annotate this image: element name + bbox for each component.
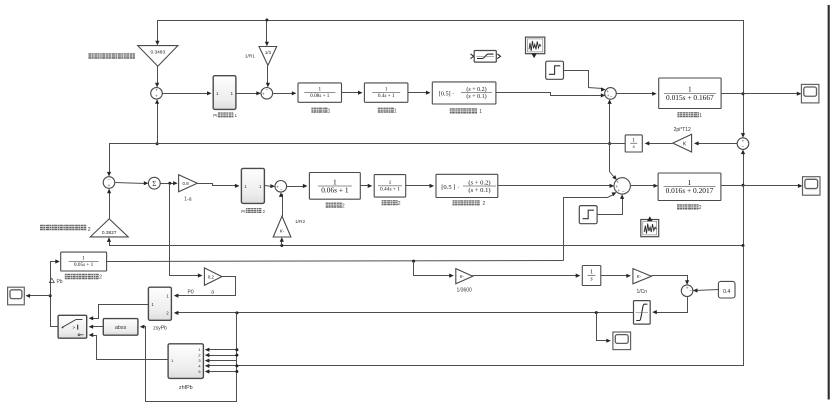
gain 1/R1 — [259, 47, 277, 66]
transfer fcn reheat turbine 1 — [432, 82, 496, 104]
svg-text:2: 2 — [342, 203, 345, 209]
svg-text:a: a — [211, 289, 214, 295]
svg-text:0.3483: 0.3483 — [150, 49, 165, 55]
svg-text:(s + 0.2): (s + 0.2) — [466, 86, 486, 93]
svg-text:−: − — [280, 187, 283, 192]
wire step 1 to sum S3 — [564, 71, 603, 89]
wire governor 2 to prime mover 2 — [361, 185, 370, 187]
transfer fcn generator 1 — [659, 78, 721, 109]
label governor 2 — [326, 203, 331, 208]
scope 2 — [803, 177, 821, 196]
transfer fcn reheat turbine 2 — [436, 174, 498, 197]
svg-text:0.06s + 1: 0.06s + 1 — [321, 186, 349, 195]
svg-text:2: 2 — [398, 201, 401, 207]
svg-text:1: 1 — [319, 87, 322, 93]
svg-text:+: + — [262, 92, 265, 97]
svg-text:−: − — [610, 94, 613, 99]
svg-text:1: 1 — [235, 113, 238, 118]
svg-text:−: − — [622, 189, 625, 194]
wire sum S6 to gain 1-a — [161, 183, 175, 185]
subsystem zsyPb — [148, 287, 171, 320]
wire gain 1/Cn down into sum S9 — [652, 276, 688, 283]
wire sum S1 to PI controller 1 — [163, 93, 209, 95]
step 1 — [546, 61, 564, 79]
svg-text:[0.5] ·: [0.5] · — [439, 91, 454, 98]
sum S1 — [151, 88, 163, 100]
svg-text:1/3: 1/3 — [265, 50, 272, 55]
wire branch down to scope 3 — [597, 313, 609, 341]
svg-text:1/Cn: 1/Cn — [637, 289, 648, 295]
wire reheat turbine 2 to sum S8 — [498, 185, 612, 187]
saturation block 1 (floating) — [471, 54, 474, 59]
svg-text:−: − — [265, 88, 268, 93]
svg-text:1: 1 — [389, 180, 392, 186]
wire ACE2 branch down to gain a — [170, 184, 200, 276]
wire reheat turbine 1 to sum S3 — [496, 93, 603, 96]
wire into zhfPb port 3 — [208, 360, 237, 362]
svg-text:0.08s + 1: 0.08s + 1 — [310, 93, 330, 99]
wire gain 1/R1 output down to sum S2 — [267, 66, 269, 85]
wire tie-line branch down into sum S8 top-left — [610, 144, 614, 177]
gain 1/3600 — [456, 269, 473, 284]
wire abss output to switch input 2 — [92, 326, 104, 328]
wire into zhfPb port 1 — [208, 349, 237, 351]
subsystem PI controller 1 — [213, 76, 236, 110]
gain 1/R2 — [273, 216, 291, 237]
block abss — [103, 319, 138, 336]
svg-text:+: + — [155, 94, 158, 99]
svg-text:0.016s + 0.2017: 0.016s + 0.2017 — [666, 186, 714, 195]
transfer fcn prime mover 2 — [374, 175, 406, 198]
svg-text:abss: abss — [115, 325, 127, 331]
svg-text:−: − — [108, 177, 111, 182]
svg-text:0.8: 0.8 — [183, 181, 190, 186]
svg-text:zsyPb: zsyPb — [153, 326, 167, 332]
svg-text:2: 2 — [699, 205, 702, 211]
sum S5 — [103, 177, 115, 189]
wire step 2 up into sum S8 bottom — [598, 197, 623, 215]
label energy storage transfer fcn 2 — [65, 274, 70, 279]
wire gain 1-a to PI controller 2 — [198, 184, 237, 186]
label generator set 1 — [677, 112, 682, 117]
transfer fcn governor 2 — [309, 173, 360, 200]
wire SOC distribution vertical x=237 — [142, 313, 237, 402]
transfer fcn generator 2 — [658, 173, 721, 201]
gain 0.3483 (frequency bias 1) — [138, 46, 178, 67]
wire tie-line branch up into sum S1 bottom — [157, 102, 159, 144]
svg-text:Σ: Σ — [152, 180, 156, 188]
svg-text:2: 2 — [263, 209, 266, 214]
wire constant 0.4 to sum S9 — [696, 290, 719, 291]
svg-text:1/3600: 1/3600 — [457, 287, 473, 293]
wire integrator 2 to gain 1/Cn — [601, 275, 629, 277]
wire f2 up into sum S4 bottom — [743, 153, 745, 186]
svg-text:+: + — [617, 188, 620, 193]
wire sum S7 to governor 2 — [287, 186, 305, 188]
label delta Pb — [49, 278, 54, 282]
svg-text:1: 1 — [590, 270, 593, 276]
wire gain 0.3827 up into sum S5 — [109, 192, 111, 219]
wire branch down to gain 1/3600 — [414, 262, 452, 276]
svg-text:(s + 0.1): (s + 0.1) — [468, 187, 490, 194]
gain 0.3827 (frequency bias 2) — [90, 219, 128, 237]
svg-text:0.015s + 0.1667: 0.015s + 0.1667 — [666, 93, 714, 102]
gain 1-a (0.8) — [179, 175, 198, 192]
svg-text:zhfPb: zhfPb — [179, 385, 193, 391]
wire zsyPb output to switch input 1 — [92, 305, 149, 319]
svg-text:1: 1 — [328, 108, 331, 114]
wire into zhfPb port 5 — [208, 371, 237, 373]
sum S3 — [605, 88, 617, 100]
svg-text:1/R1: 1/R1 — [245, 53, 255, 59]
transfer fcn governor 1 — [298, 83, 342, 102]
wire f1 down into tie-line sum S4 — [743, 94, 745, 136]
svg-text:1/R2: 1/R2 — [295, 219, 305, 225]
svg-text:+: + — [276, 184, 279, 189]
label reheat turbine 2 — [453, 200, 458, 205]
wire governor 1 to prime mover 1 — [342, 92, 360, 94]
wire sum S2 to governor 1 — [273, 93, 294, 95]
svg-text:[0.5 ] ·: [0.5 ] · — [441, 184, 459, 191]
integrator 2 (1/s) — [582, 266, 601, 286]
svg-text:+: + — [686, 286, 689, 291]
wire sum S5 to sum S6 — [116, 183, 146, 184]
constant 0.4 — [718, 281, 735, 298]
gain 1/Cn — [633, 269, 652, 284]
svg-text:1: 1 — [385, 87, 388, 93]
svg-text:2: 2 — [99, 275, 102, 281]
wire generator 2 to scope 2 — [721, 185, 800, 187]
label governor 1 — [311, 108, 316, 113]
svg-text:0.4s + 1: 0.4s + 1 — [378, 93, 395, 99]
svg-text:0.05s + 1: 0.05s + 1 — [74, 262, 94, 268]
gain 2pi*T12 — [673, 134, 692, 152]
wire prime mover 2 to reheat turbine 2 — [406, 185, 432, 187]
svg-text:>: > — [73, 325, 76, 330]
wire branch to bottom-left scope — [29, 295, 51, 297]
svg-text:+: + — [742, 138, 745, 143]
subsystem PI controller 2 — [241, 168, 264, 203]
svg-text:s: s — [633, 144, 635, 150]
wire battery output to big sum S8 (up from storage line) — [564, 195, 614, 261]
svg-text:+: + — [108, 183, 111, 188]
wire prime mover 1 to reheat turbine 1 — [408, 92, 428, 94]
saturation 2 — [634, 301, 651, 325]
sum S2 — [261, 88, 273, 100]
svg-text:1: 1 — [632, 138, 635, 144]
wire gain 1/3600 to integrator 2 — [473, 275, 578, 277]
wire sum S9 down into saturation 2 — [656, 297, 688, 313]
wire f2 long loop to zhfPb port 4 — [208, 246, 744, 366]
signal generator 1 — [526, 37, 545, 54]
wire zhfPb output to switch input 3 — [92, 336, 169, 360]
svg-text:0.2: 0.2 — [208, 274, 215, 279]
sum S7 — [275, 181, 287, 193]
svg-text:0.3827: 0.3827 — [102, 230, 117, 236]
svg-text:(s + 0.2): (s + 0.2) — [468, 179, 490, 186]
transfer fcn prime mover 1 — [364, 83, 408, 102]
wire gain 0.3483 output to sum S1 — [157, 67, 159, 85]
svg-text:P0: P0 — [188, 289, 194, 295]
wire storage transfer fcn output line — [107, 261, 564, 262]
switch — [58, 315, 87, 338]
sum S6 (sigma) — [148, 177, 160, 189]
svg-text:1: 1 — [394, 108, 397, 114]
svg-text:+: + — [155, 88, 158, 93]
scope 3 — [613, 332, 631, 350]
svg-text:2: 2 — [88, 227, 91, 233]
wire sum S8 to generator 2 — [631, 185, 656, 187]
svg-text:1: 1 — [479, 109, 482, 115]
wire into zhfPb port 2 — [208, 355, 237, 357]
transfer fcn energy storage 2 — [61, 252, 107, 271]
svg-text:−: − — [742, 144, 745, 149]
label reheat turbine 1 — [450, 108, 455, 113]
svg-text:PI: PI — [241, 209, 245, 214]
wire gain 1/R2 up into sum S7 — [282, 195, 283, 217]
svg-text:Pb: Pb — [56, 279, 62, 285]
svg-text:(s + 0.1): (s + 0.1) — [466, 93, 486, 100]
svg-text:0.4: 0.4 — [723, 289, 730, 295]
label system frequency bias coefficient 1 — [88, 53, 93, 59]
wire PI controller 1 to sum S2 — [236, 93, 259, 95]
label prime mover 1 — [378, 108, 383, 113]
svg-text:0.44s + 1: 0.44s + 1 — [380, 187, 400, 193]
step 2 — [579, 206, 597, 224]
label prime mover 2 — [382, 200, 387, 205]
integrator 1/s tie-line — [625, 135, 642, 152]
wire top feedback f1 (gen1 output to area-1 inputs) — [158, 21, 744, 94]
wire f2 feedback down and left (to 1/R2 and bias 2) — [110, 186, 744, 246]
sum S9 — [681, 285, 693, 297]
svg-text:PI: PI — [213, 113, 217, 118]
wire f2 branch up into gain 1/R2 — [281, 240, 283, 246]
svg-text:K-: K- — [460, 274, 465, 279]
wire saturation 2 output to zsyPb port 2 — [177, 312, 634, 314]
scope bottom-left — [8, 287, 25, 305]
label system frequency bias coefficient 2 — [40, 225, 45, 231]
sum S8 (area 2 power sum) — [614, 178, 630, 194]
wire sum S3 to generator 1 — [617, 93, 654, 95]
wire switch output up to storage block and scope — [51, 262, 59, 327]
subsystem zhfPb — [168, 344, 203, 379]
wire tie-line power to area 2 (long left run) — [110, 144, 626, 174]
wire generator 1 to scope 1 — [722, 93, 799, 95]
scope 1 — [801, 84, 819, 103]
sum S4 — [737, 138, 749, 150]
svg-text:−: − — [689, 289, 692, 294]
svg-text:K-: K- — [637, 274, 642, 279]
wire gain a to zsyPb port 1 (P0) — [177, 277, 236, 296]
svg-text:1: 1 — [699, 113, 702, 119]
svg-text:2pi*T12: 2pi*T12 — [674, 127, 691, 133]
wire tie-line branch up into sum S3 bottom — [609, 102, 611, 144]
wire PI controller 2 to sum S7 — [265, 186, 273, 187]
svg-text:2: 2 — [483, 201, 486, 207]
signal generator 2 — [641, 220, 659, 237]
svg-text:K-: K- — [280, 229, 285, 234]
gain a (0.2) — [204, 268, 222, 285]
wire sum S4 to gain 2pi*T12 — [697, 143, 738, 145]
wire gain 2pi*T12 to integrator 1/s — [648, 143, 673, 145]
svg-text:1: 1 — [82, 256, 85, 262]
svg-text:1-a: 1-a — [184, 196, 191, 202]
label generator set 2 — [677, 204, 682, 209]
